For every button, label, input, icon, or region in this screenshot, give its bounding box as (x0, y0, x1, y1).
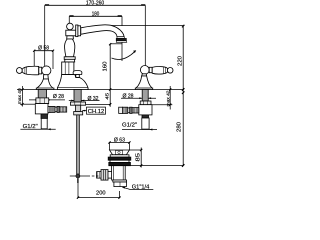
swivel rings (76, 25, 78, 37)
dim 180 line (69, 15, 122, 17)
tube below nut (76, 105, 81, 111)
right side pipe ring 2 (130, 107, 132, 113)
side outlet tube (97, 172, 112, 179)
washer dark 2 (109, 162, 131, 165)
drain flange (110, 150, 130, 155)
right lever knob (167, 68, 173, 74)
aerator dark band (116, 38, 126, 40)
svg-text:170-260: 170-260 (86, 0, 105, 6)
dim 200 line (78, 197, 120, 199)
dim 170-260 extension left (44, 5, 46, 66)
left valve body (35, 104, 48, 114)
G1/2 left leader (20, 128, 55, 130)
swivel collar (66, 30, 76, 36)
svg-text:G1/2": G1/2" (122, 123, 137, 129)
dim 220 line (182, 26, 184, 90)
svg-text:max 42: max 42 (165, 90, 171, 106)
right bottom stub (142, 115, 149, 118)
outlet extension line (121, 16, 123, 61)
tail tube (114, 182, 127, 187)
dim diam63 line (110, 142, 130, 144)
left lever knob (17, 68, 23, 74)
diam28 right leader (121, 97, 156, 99)
deck line (17, 89, 183, 91)
diam32 leader (69, 100, 100, 102)
tailpiece flange (113, 180, 127, 182)
svg-text:G1"1/4: G1"1/4 (132, 185, 150, 191)
pop-up knob (73, 71, 82, 75)
left side pipe knurl 2 (59, 107, 66, 112)
neck under collar (67, 36, 74, 39)
max40 bottom reference (20, 103, 36, 105)
svg-text:G1/2": G1/2" (23, 124, 38, 130)
svg-text:Ø 28: Ø 28 (53, 94, 64, 100)
left lever grip (22, 66, 39, 75)
right supply tube (142, 118, 149, 129)
svg-text:85: 85 (136, 153, 142, 162)
dim 280 line (182, 90, 184, 166)
drain body (112, 166, 126, 180)
dim 160 top connector (110, 43, 122, 45)
left side pipe knurl 1 (50, 106, 55, 112)
right side pipe knurl 1 (132, 108, 139, 113)
dim max42 line (169, 86, 171, 110)
ball finial (67, 23, 74, 30)
spout fixing nut (70, 102, 85, 105)
right side pipe end cap (119, 107, 123, 113)
ring set (64, 57, 75, 62)
horizontal rod (70, 175, 90, 177)
svg-text:45: 45 (104, 92, 110, 99)
svg-text:160: 160 (102, 61, 108, 71)
washer dark 1 (108, 157, 131, 160)
dim 170-260 line (45, 4, 146, 6)
aerator joint (117, 36, 124, 38)
max42 bottom reference (151, 104, 172, 106)
right side pipe neck (128, 108, 130, 113)
svg-text:max 40: max 40 (17, 88, 23, 104)
bottom reference line (127, 165, 183, 167)
locknut (74, 112, 83, 115)
right valve body (139, 105, 152, 115)
CH.12 box (87, 107, 106, 114)
svg-text:Ø 63: Ø 63 (114, 138, 125, 144)
spacer (110, 160, 129, 162)
dim 160 and 45 line (109, 44, 111, 107)
spout top reference line (106, 25, 183, 27)
left supply tube (41, 118, 47, 128)
left nut (36, 98, 49, 104)
left handle ball (42, 66, 51, 75)
right lever collar (149, 67, 152, 72)
G1/2 right leader (122, 129, 157, 131)
left handle neck (43, 75, 48, 79)
left shank (38, 90, 46, 98)
swivel arc arrow (112, 51, 136, 59)
dim 85 top connector (129, 149, 141, 151)
dim max40 line (22, 86, 24, 107)
diam58 extensions (34, 51, 53, 69)
svg-text:220: 220 (177, 56, 183, 66)
spout threaded shank (74, 90, 81, 103)
svg-text:200: 200 (96, 191, 106, 197)
left side pipe ring 2 (57, 106, 59, 112)
drain ring (110, 155, 129, 157)
svg-text:280: 280 (176, 122, 182, 132)
svg-text:CH.12: CH.12 (88, 109, 105, 115)
left lever collar (39, 67, 42, 74)
svg-text:Ø 58: Ø 58 (38, 45, 49, 51)
diam63 extensions (110, 143, 130, 151)
dim 170-260 extension right (144, 5, 146, 65)
aerator collar (117, 37, 124, 39)
bell base (57, 75, 88, 90)
pop-up rod (77, 115, 80, 174)
right handle ball (140, 66, 149, 75)
right handle bell (135, 76, 152, 90)
lower barrel (62, 62, 74, 75)
dim 85 line (140, 148, 142, 168)
CH.12 leader (82, 110, 86, 112)
right shank (142, 90, 148, 102)
dim diam58 line (34, 50, 53, 52)
baluster body (65, 39, 75, 57)
dim 45 bottom reference (86, 103, 111, 105)
left side pipe ring 1 (48, 106, 50, 112)
left handle bell (36, 79, 54, 90)
left side pipe neck (55, 107, 57, 112)
right handle neck (142, 74, 147, 76)
right nut (140, 101, 151, 105)
dim 200 extensions (78, 183, 120, 198)
aerator skirt (116, 41, 127, 43)
svg-text:Ø 28: Ø 28 (122, 93, 133, 99)
rod lower tip (77, 178, 79, 183)
svg-text:180: 180 (92, 11, 100, 17)
diam28 left leader (29, 99, 65, 101)
spout tube (81, 25, 124, 37)
dim 180 extension left (68, 16, 70, 23)
left bottom stub (41, 114, 48, 119)
rod ball joint (76, 174, 80, 178)
svg-text:Ø 32: Ø 32 (87, 96, 98, 102)
drain plug (115, 151, 122, 155)
G1 1/4 leader (124, 188, 153, 190)
right lever grip (152, 67, 168, 75)
side outlet hex nut (101, 170, 108, 181)
right side pipe knurl 2 (123, 107, 128, 113)
